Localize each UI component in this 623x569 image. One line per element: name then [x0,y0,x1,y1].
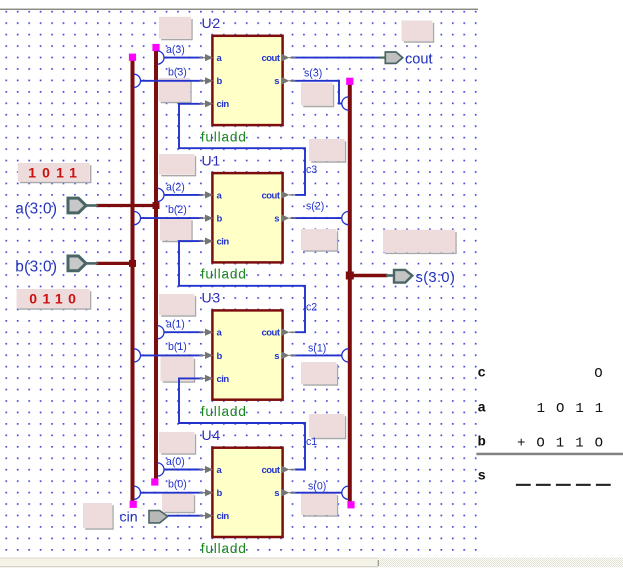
svg-text:a(3:0): a(3:0) [15,201,57,218]
bus endpoint marker b-bus bottom [130,501,137,508]
wire net a(2) [164,194,203,196]
placeholder label box left of U1 label [159,154,196,176]
worksheet sum rule [476,453,623,456]
placeholder label box right of U4 s [301,493,338,516]
svg-text:a: a [217,328,223,339]
input port b(3:0) wire to b-bus [96,262,133,265]
bus tap s(0) [342,486,349,499]
placeholder label box near U2 [159,17,192,40]
wire net b(0) [141,492,204,494]
bus endpoint marker s-bus top [346,78,353,85]
svg-text:+O11O: +O11O [517,435,614,451]
placeholder label box left of U3 label [159,294,196,316]
svg-text:fulladd: fulladd [201,267,247,282]
svg-text:s(3): s(3) [304,68,322,80]
svg-text:c3: c3 [306,164,317,176]
pin a of U2 [200,57,207,59]
svg-text:b: b [217,488,223,499]
bus tap b(3) [134,74,141,87]
placeholder label box left of U2 pin b [159,78,192,103]
svg-text:cout: cout [261,328,280,339]
pin cin of U4 [200,515,207,517]
pin cin of U2 [200,103,207,105]
svg-text:cout: cout [261,190,280,201]
svg-text:a: a [478,400,487,416]
pin cout of U1 [282,191,290,198]
svg-text:U1: U1 [202,152,222,168]
svg-text:s: s [478,469,486,485]
svg-text:c1: c1 [306,436,317,448]
value label box 0110 [17,289,91,309]
pin cout of U4 [282,466,290,473]
pin a of U4 [200,469,207,471]
horizontal scrollbar thumb [0,557,378,567]
placeholder label box left of U4 cin [162,493,195,513]
wire net b(3) [141,80,204,82]
placeholder label box near cin port [83,503,113,529]
wire net b(1) [141,354,204,356]
wire cout net from U2 [291,57,379,59]
placeholder label box right of U1 bottom [301,229,338,251]
input port cin symbol [149,511,168,523]
bus endpoint marker b-bus top [129,54,136,61]
wire net s(1) [291,354,342,356]
bus tap a(1) [157,326,164,339]
svg-text:s: s [274,351,279,362]
input port a(3:0) symbol [68,198,98,213]
wire cin net to U4 [168,515,203,517]
junction s(3:0) on s-bus [346,272,354,280]
schematic sheet top border line [0,9,478,10]
svg-text:cout: cout [261,53,280,64]
wire net s(0) [291,492,342,494]
svg-text:fulladd: fulladd [201,541,247,556]
svg-text:a(1): a(1) [166,319,185,331]
bus tap s(3) [342,97,349,110]
wire net a(1) [164,331,203,333]
svg-text:U2: U2 [202,15,222,31]
bus tap a(0) [157,463,164,476]
svg-text:s: s [274,488,279,499]
input port a(3:0) wire to a-bus [96,204,156,207]
wire net a(3) [164,57,203,59]
pin cin of U1 [200,240,207,242]
full adder block U2 [200,36,296,125]
svg-text:1O11: 1O11 [537,401,615,417]
placeholder label box right of c3 [309,139,346,162]
svg-text:U3: U3 [202,290,222,306]
pin cout of U3 [282,329,290,336]
placeholder wide box above s(3:0) port [383,230,456,254]
wire net b(2) [141,217,204,219]
svg-text:cin: cin [217,237,230,248]
svg-text:s(3:0): s(3:0) [416,270,456,286]
placeholder label box below s(3) wire [301,83,334,107]
svg-text:s(1): s(1) [308,343,326,355]
wire net s(2) [291,217,342,219]
pin b of U4 [200,492,207,494]
svg-text:U4: U4 [202,427,222,443]
pin s of U1 [282,215,290,222]
svg-text:a(3): a(3) [166,44,185,56]
svg-text:cin: cin [217,374,230,385]
svg-text:1011: 1011 [28,164,83,180]
wire net a(0) [164,469,203,471]
svg-text:c2: c2 [306,302,317,314]
bus endpoint marker a-bus top [152,44,159,51]
svg-text:s(0): s(0) [308,481,326,493]
wire net c2 (U3 cout to U1 cin) [179,241,305,332]
svg-text:s: s [274,214,279,225]
svg-text:cin: cin [217,511,230,522]
svg-text:b: b [217,351,223,362]
bus tap a(3) [157,51,164,64]
svg-text:cout: cout [405,51,433,67]
pin s of U4 [282,489,290,496]
bus tap b(1) [134,349,141,362]
bus endpoint marker a-bus bottom [151,478,158,485]
pin b of U1 [200,217,207,219]
value label box 1011 [18,163,91,183]
pin b of U3 [200,354,207,356]
svg-text:O: O [594,366,602,382]
bus tap a(2) [157,188,164,201]
bus tap b(2) [134,212,141,225]
bus a(3:0) vertical net [154,48,158,482]
bus tap s(1) [342,349,349,362]
horizontal scrollbar track [0,557,623,567]
placeholder label box right of U3 s [301,362,338,385]
placeholder label box left of U1 cin [160,218,192,242]
junction b(3:0) on b-bus [129,260,136,267]
svg-text:cin: cin [217,99,230,110]
junction a(3:0) on a-bus [153,202,160,209]
schematic grid dots [0,10,479,556]
svg-text:b(0): b(0) [168,479,187,491]
output port s(3:0) symbol [386,270,412,283]
pin s of U2 [282,77,290,84]
svg-text:b: b [478,435,486,451]
svg-text:fulladd: fulladd [201,129,247,144]
pin s of U3 [282,352,290,359]
bus b(3:0) vertical net [131,57,135,504]
input port b(3:0) symbol [68,256,98,271]
svg-text:cout: cout [261,465,280,476]
bus s(3:0) vertical net [348,82,352,505]
wire net c1 (U4 cout to U3 cin) [179,378,305,469]
svg-text:a: a [217,53,223,64]
placeholder label box left of U3 cin [161,357,195,383]
svg-text:fulladd: fulladd [201,404,247,419]
pin cout of U2 [282,54,290,61]
full adder block U4 [200,448,296,537]
svg-text:b(1): b(1) [168,341,187,353]
worksheet row s blank dashes [516,484,611,486]
svg-text:b(2): b(2) [168,204,187,216]
svg-text:c: c [478,365,486,381]
bus tap b(0) [134,486,141,499]
svg-text:b: b [217,214,223,225]
svg-text:b(3): b(3) [168,67,187,79]
svg-text:b(3:0): b(3:0) [15,258,57,275]
bus tap s(2) [342,212,349,225]
pin b of U2 [200,80,207,82]
output port cout symbol [379,52,403,63]
svg-text:s(2): s(2) [306,200,324,212]
full adder block U3 [200,310,296,399]
wire net s(3) [291,81,342,104]
placeholder label box right of c1 [309,414,346,439]
svg-text:a: a [217,190,223,201]
svg-text:a(0): a(0) [166,456,185,468]
output port s(3:0) wire from s-bus [350,274,388,277]
pin a of U3 [200,331,207,333]
full adder block U1 [200,173,296,262]
bus endpoint marker s-bus bottom [347,501,354,508]
svg-text:b: b [217,76,223,87]
svg-text:a(2): a(2) [166,181,185,193]
pin cin of U3 [200,377,207,379]
svg-text:cin: cin [120,509,138,525]
placeholder label box left of U4 label [159,432,196,454]
svg-text:s: s [274,76,279,87]
svg-text:0110: 0110 [29,290,81,306]
svg-text:a: a [217,465,223,476]
wire net c3 (U1 cout to U2 cin) [179,104,305,195]
placeholder label box near cout [402,21,434,43]
pin a of U1 [200,194,207,196]
